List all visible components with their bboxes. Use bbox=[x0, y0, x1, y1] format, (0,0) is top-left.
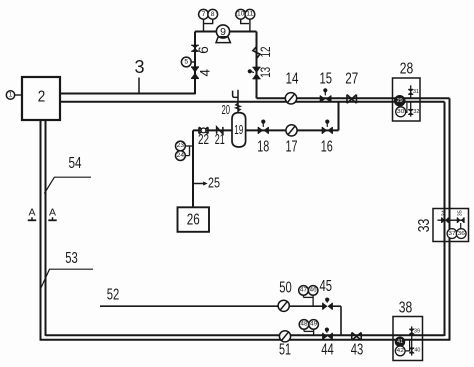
svg-text:7: 7 bbox=[202, 11, 206, 18]
valve 18 bbox=[258, 120, 268, 134]
label 13 bbox=[258, 67, 273, 78]
valve 39 bbox=[409, 329, 414, 334]
svg-text:46: 46 bbox=[310, 288, 318, 294]
box 28 bbox=[393, 78, 421, 121]
svg-text:41: 41 bbox=[397, 339, 403, 345]
flow indicator 50 bbox=[278, 300, 289, 311]
label 53 with leader bbox=[41, 250, 93, 288]
svg-text:24: 24 bbox=[177, 153, 185, 159]
box 26 bbox=[178, 207, 210, 232]
label 4 bbox=[197, 68, 212, 76]
box 33 bbox=[433, 209, 469, 242]
label 3 bbox=[134, 57, 144, 77]
valve 45 bbox=[323, 298, 333, 310]
gauge 11 bbox=[245, 9, 255, 31]
label 35 bbox=[457, 210, 463, 216]
node 3 sensor tick bbox=[138, 78, 140, 95]
instrument circle 23 bbox=[176, 141, 190, 151]
wire pump header bbox=[195, 31, 257, 33]
label 44 bbox=[321, 341, 334, 358]
svg-text:20: 20 bbox=[222, 102, 231, 117]
svg-text:37: 37 bbox=[448, 231, 455, 237]
svg-text:47: 47 bbox=[300, 288, 308, 294]
svg-text:17: 17 bbox=[286, 138, 298, 155]
valve 13 bbox=[248, 67, 261, 78]
svg-text:10: 10 bbox=[237, 12, 245, 18]
svg-text:39: 39 bbox=[414, 329, 420, 335]
svg-text:53: 53 bbox=[65, 250, 78, 267]
wire stub valve 32 bbox=[410, 102, 412, 117]
svg-text:40: 40 bbox=[414, 348, 420, 354]
label 12 bbox=[258, 47, 273, 58]
valve 16 bbox=[322, 120, 332, 134]
wire corner down to box 26 bbox=[192, 130, 194, 207]
svg-text:21: 21 bbox=[215, 131, 225, 148]
svg-text:30: 30 bbox=[397, 109, 405, 115]
valve 40 bbox=[409, 348, 414, 353]
wire gauge bracket bbox=[190, 146, 194, 156]
wire branch line 19 to riser bbox=[246, 129, 339, 131]
label 43 bbox=[351, 342, 364, 359]
label 25 bbox=[208, 176, 220, 192]
instrument circle 1 bbox=[6, 91, 22, 99]
wire vessel to valve 22 bbox=[193, 129, 232, 131]
label 34 bbox=[442, 210, 448, 216]
section marker A right bbox=[48, 207, 56, 221]
flex joint 12 bbox=[253, 47, 260, 59]
svg-text:31: 31 bbox=[413, 89, 419, 95]
wire bracket gauge 42 bbox=[405, 340, 410, 351]
label 18 bbox=[257, 138, 269, 155]
gauge 41 bbox=[395, 337, 405, 347]
wire right outer vertical bbox=[449, 98, 451, 340]
svg-text:52: 52 bbox=[107, 286, 120, 303]
svg-text:6: 6 bbox=[196, 46, 211, 54]
svg-text:19: 19 bbox=[234, 123, 243, 137]
pump 9 bbox=[216, 25, 230, 43]
valve 20 needle with handle bbox=[233, 90, 241, 113]
wire gauge bracket 46-47 bbox=[304, 295, 314, 306]
wire line 52 bbox=[100, 305, 322, 307]
svg-text:35: 35 bbox=[457, 210, 463, 216]
wire pump right riser bbox=[256, 32, 258, 99]
svg-text:14: 14 bbox=[286, 70, 299, 87]
wire left inner vertical bbox=[45, 120, 47, 336]
label 40 bbox=[414, 348, 420, 354]
label 28 bbox=[400, 61, 414, 78]
box 38 bbox=[393, 317, 423, 361]
vessel 19 bbox=[232, 113, 246, 147]
label 20 bbox=[222, 102, 231, 117]
svg-text:18: 18 bbox=[257, 138, 269, 155]
svg-text:54: 54 bbox=[69, 155, 82, 172]
label 54 with leader bbox=[44, 155, 91, 194]
svg-text:5: 5 bbox=[184, 59, 188, 66]
wire drop to gauge 36 bbox=[460, 223, 462, 229]
node 25 tap bbox=[193, 181, 208, 185]
label 6 bbox=[196, 46, 211, 54]
label 39 bbox=[414, 329, 420, 335]
wire stub valve 39 bbox=[411, 326, 413, 339]
svg-text:36: 36 bbox=[458, 231, 465, 237]
svg-text:3: 3 bbox=[134, 57, 144, 77]
wire lower top line from box 2 to right side bbox=[60, 101, 445, 103]
gauge 46 bbox=[308, 286, 318, 296]
label 22 bbox=[198, 131, 209, 148]
svg-text:2: 2 bbox=[38, 89, 46, 106]
gauge 47 bbox=[299, 286, 309, 298]
wire bottom inner line bbox=[46, 334, 445, 336]
svg-text:38: 38 bbox=[399, 299, 413, 316]
gauge 7 bbox=[199, 9, 209, 31]
filter 21 bbox=[217, 127, 223, 134]
valve 44 bbox=[323, 328, 333, 340]
gauge 36 bbox=[456, 229, 466, 239]
label 15 bbox=[320, 70, 333, 87]
process unit box 2 bbox=[22, 77, 60, 120]
wire left outer vertical bbox=[40, 120, 42, 341]
valve 32 bbox=[408, 110, 413, 115]
label 38 bbox=[399, 299, 413, 316]
gauge 48 bbox=[299, 320, 309, 332]
svg-text:12: 12 bbox=[258, 47, 273, 58]
svg-text:22: 22 bbox=[198, 131, 209, 148]
flow indicator 51 bbox=[279, 331, 290, 342]
label 27 bbox=[345, 70, 358, 87]
svg-text:42: 42 bbox=[397, 348, 404, 354]
svg-text:28: 28 bbox=[400, 61, 414, 78]
svg-text:34: 34 bbox=[442, 210, 448, 216]
svg-text:A: A bbox=[49, 207, 56, 219]
wire branch riser to main bbox=[338, 102, 340, 131]
label 33 bbox=[416, 219, 433, 233]
label 16 bbox=[321, 138, 333, 155]
valve 27 bbox=[347, 95, 357, 104]
svg-text:48: 48 bbox=[300, 322, 308, 328]
label 32 bbox=[413, 109, 419, 115]
svg-text:44: 44 bbox=[321, 341, 334, 358]
section marker A left bbox=[28, 207, 36, 221]
gauge 37 bbox=[447, 229, 457, 239]
gauge 42 bbox=[395, 346, 405, 356]
wire bottom outer line bbox=[41, 339, 450, 341]
label 45 bbox=[320, 278, 333, 295]
gauge 29 bbox=[394, 96, 405, 107]
wire right inner vertical bbox=[444, 102, 446, 336]
svg-text:51: 51 bbox=[279, 341, 291, 358]
svg-text:11: 11 bbox=[246, 12, 254, 18]
svg-text:9: 9 bbox=[220, 26, 226, 38]
valve 6 bbox=[191, 45, 199, 51]
svg-text:50: 50 bbox=[279, 279, 292, 296]
svg-text:15: 15 bbox=[320, 70, 333, 87]
wire branch from valve 45 down bbox=[340, 306, 342, 335]
instrument circle 5 bbox=[181, 57, 195, 67]
valve 34 bbox=[442, 217, 449, 223]
gauge 30 bbox=[396, 107, 406, 117]
svg-text:33: 33 bbox=[416, 219, 433, 233]
label 50 bbox=[279, 279, 292, 296]
svg-text:32: 32 bbox=[413, 109, 419, 115]
label 31 bbox=[413, 89, 419, 95]
svg-text:23: 23 bbox=[177, 143, 185, 149]
label 14 bbox=[286, 70, 299, 87]
wire line 52 after valve 45 bbox=[333, 305, 341, 307]
valve 22 bbox=[199, 127, 208, 133]
svg-text:13: 13 bbox=[258, 67, 273, 78]
svg-text:25: 25 bbox=[208, 176, 220, 192]
svg-text:1: 1 bbox=[9, 92, 13, 99]
wire bracket gauge 30 bbox=[406, 103, 407, 113]
wire pump left riser bbox=[194, 32, 196, 95]
instrument circle 24 bbox=[176, 151, 190, 161]
svg-text:8: 8 bbox=[211, 11, 215, 18]
svg-text:16: 16 bbox=[321, 138, 333, 155]
label 52 bbox=[107, 286, 120, 303]
wire main line to right edge bbox=[257, 97, 450, 99]
svg-text:43: 43 bbox=[351, 342, 364, 359]
flow indicator 14 bbox=[285, 93, 296, 104]
gauge 8 bbox=[204, 9, 218, 23]
valve 4 bbox=[191, 67, 199, 78]
svg-text:49: 49 bbox=[310, 322, 318, 328]
wire stub valve 40 bbox=[411, 340, 413, 356]
flow indicator 17 bbox=[286, 125, 297, 136]
wire stub in box 33 bbox=[438, 219, 463, 221]
svg-text:29: 29 bbox=[397, 98, 403, 104]
svg-text:27: 27 bbox=[345, 70, 358, 87]
valve 35 bbox=[457, 217, 464, 223]
svg-text:A: A bbox=[28, 207, 35, 219]
wire top line from box 2 to pump riser bbox=[60, 93, 195, 95]
svg-text:26: 26 bbox=[187, 212, 200, 229]
svg-text:45: 45 bbox=[320, 278, 333, 295]
label 21 bbox=[215, 131, 225, 148]
valve 43 bbox=[352, 333, 362, 341]
gauge 10 bbox=[236, 9, 249, 23]
valve 31 bbox=[408, 90, 413, 95]
wire stub valve 31 bbox=[410, 85, 412, 98]
label 51 bbox=[279, 341, 291, 358]
wire gauge bracket 48-49 bbox=[304, 329, 314, 335]
valve 15 bbox=[320, 88, 331, 102]
gauge 49 bbox=[309, 320, 319, 330]
label 17 bbox=[286, 138, 298, 155]
svg-text:4: 4 bbox=[197, 68, 212, 76]
